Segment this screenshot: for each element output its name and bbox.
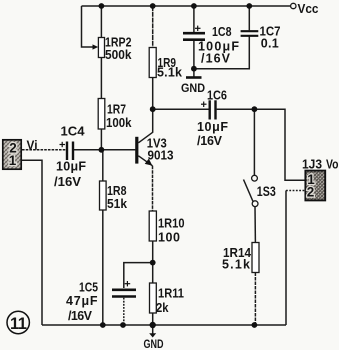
svg-text:100k: 100k [106, 116, 132, 130]
svg-text:1J3: 1J3 [302, 157, 322, 171]
svg-text:5.1k: 5.1k [157, 66, 182, 80]
svg-text:/16V: /16V [68, 309, 93, 323]
svg-text:11: 11 [10, 315, 27, 333]
svg-text:51k: 51k [107, 197, 127, 211]
svg-text:0.1: 0.1 [261, 36, 279, 50]
svg-text:1R10: 1R10 [158, 217, 185, 231]
svg-text:47μF: 47μF [66, 294, 98, 308]
svg-text:100: 100 [158, 231, 180, 245]
svg-text:1: 1 [9, 153, 17, 168]
svg-text:1R11: 1R11 [158, 287, 184, 301]
svg-text:500k: 500k [105, 48, 132, 62]
svg-text:1C4: 1C4 [61, 125, 85, 139]
svg-text:1C5: 1C5 [79, 281, 98, 295]
svg-text:1S3: 1S3 [257, 184, 276, 199]
svg-text:GND: GND [181, 81, 205, 95]
svg-text:2k: 2k [156, 301, 169, 315]
svg-text:Vi: Vi [27, 138, 38, 152]
svg-text:/16V: /16V [54, 175, 82, 189]
svg-text:1C6: 1C6 [207, 89, 227, 103]
svg-text:1C8: 1C8 [212, 25, 232, 39]
svg-text:5.1k: 5.1k [222, 258, 250, 272]
svg-text:1R8: 1R8 [107, 184, 127, 198]
svg-text:Vo: Vo [326, 157, 339, 171]
svg-text:10μF: 10μF [197, 120, 228, 134]
svg-text:2: 2 [307, 185, 315, 200]
svg-text:10μF: 10μF [56, 159, 86, 173]
svg-text:Vcc: Vcc [298, 2, 319, 16]
svg-text:GND: GND [144, 337, 164, 350]
svg-text:/16V: /16V [201, 51, 231, 65]
svg-text:1R7: 1R7 [107, 103, 126, 117]
svg-text:/16V: /16V [197, 134, 223, 148]
svg-text:9013: 9013 [148, 148, 174, 162]
